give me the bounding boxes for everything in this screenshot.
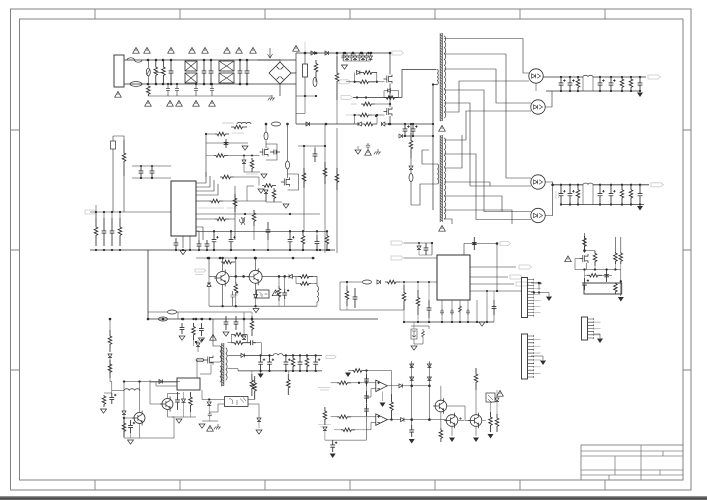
resistor R46	[583, 236, 587, 250]
capacitor C33	[175, 392, 180, 410]
wire	[311, 283, 317, 285]
junction	[286, 123, 288, 125]
wire	[240, 311, 252, 313]
resistor OUT1r2	[620, 77, 624, 91]
warning triangle	[439, 225, 446, 231]
junction u2 gnd bus	[417, 321, 419, 323]
wire U2 in2	[404, 257, 437, 259]
wire	[130, 433, 132, 438]
ground R58	[488, 434, 494, 439]
resistor R38	[250, 374, 254, 396]
junction emi	[195, 83, 197, 85]
wire U2 bypass	[459, 300, 461, 322]
resistor RY1	[147, 86, 151, 96]
capacitor C32	[128, 420, 135, 433]
junction	[315, 354, 317, 356]
capacitor C38	[298, 355, 303, 371]
wire G return bus	[209, 305, 317, 307]
junction	[388, 123, 390, 125]
junction	[432, 123, 434, 125]
diode D25	[401, 418, 404, 422]
wire	[234, 177, 259, 186]
wire 5VSB rail b	[283, 354, 322, 356]
capacitor C22	[174, 238, 179, 250]
wire to rail	[256, 343, 261, 356]
junction	[639, 90, 641, 92]
wire	[355, 429, 367, 431]
capacitor C56	[247, 340, 256, 345]
resistor R25	[192, 323, 196, 340]
ground fb	[242, 146, 248, 150]
wire	[284, 299, 286, 306]
wire	[357, 146, 359, 149]
capacitor C15	[366, 143, 370, 149]
wire	[278, 301, 280, 306]
wire primary bottom lead	[433, 85, 437, 211]
connector CN2	[522, 334, 528, 379]
wire fb drop	[391, 371, 393, 395]
wire U2 o1	[470, 266, 516, 268]
scan edge strip	[0, 496, 707, 500]
junction	[109, 318, 111, 320]
transformer T1 core lower	[440, 135, 442, 222]
resistor R8	[358, 113, 372, 117]
wire Q2 source	[389, 116, 391, 124]
wire opto in2	[209, 404, 224, 412]
wire	[95, 212, 97, 218]
wire	[404, 135, 411, 137]
wire U7B plus	[351, 416, 376, 418]
resistor R13	[214, 154, 228, 158]
wire Q9 base	[124, 417, 134, 419]
diode D9	[399, 134, 402, 138]
wire DR4 up	[545, 185, 552, 216]
junction ac bottom	[246, 83, 249, 86]
junction u2 gnd bus	[403, 321, 405, 323]
bridge rectifier BD1	[269, 62, 291, 84]
junction	[496, 290, 498, 292]
zener D23	[411, 329, 417, 339]
diode D12	[264, 190, 268, 193]
resistor R50	[337, 381, 351, 385]
wire	[410, 158, 412, 165]
pins CN3	[588, 318, 594, 339]
capacitor C23	[197, 240, 202, 250]
resistor R1	[314, 60, 318, 77]
wire	[228, 155, 260, 157]
wire bus y231	[196, 230, 327, 232]
wire	[315, 77, 317, 82]
wire	[602, 274, 612, 276]
capacitor C29	[288, 231, 295, 250]
ground zener	[411, 346, 417, 350]
junction bus250	[319, 249, 321, 251]
warning triangle	[497, 390, 504, 396]
wire q3 gnd bus	[244, 163, 260, 172]
wire	[132, 177, 171, 179]
wire	[206, 155, 214, 157]
ground Q9	[128, 440, 134, 444]
transistor Q6	[247, 268, 262, 285]
junction	[265, 123, 267, 125]
capacitor CY	[175, 84, 179, 96]
junction	[583, 249, 586, 252]
wire	[346, 81, 355, 83]
inductor bead FB2	[272, 122, 281, 126]
junction ac top	[162, 59, 165, 62]
wire Q5 emitter	[222, 285, 224, 307]
wire	[109, 319, 111, 330]
resistor R58	[489, 412, 493, 432]
junction	[412, 135, 414, 137]
wire	[428, 282, 430, 300]
junction	[208, 398, 210, 400]
junction	[304, 52, 307, 55]
ground U4	[176, 419, 182, 423]
warning triangle	[202, 47, 209, 53]
wire sb top bus	[124, 381, 180, 383]
capacitor	[102, 218, 107, 246]
capacitor C49	[353, 288, 358, 308]
wire drop x209	[208, 258, 210, 276]
wire	[418, 243, 420, 246]
capacitor C36	[267, 355, 274, 371]
wire OUT1 V+ rail b	[593, 76, 646, 78]
wire Q13 top	[475, 390, 477, 415]
junction	[538, 282, 541, 285]
diode D10	[345, 56, 349, 59]
wire	[258, 421, 260, 428]
capacitor C27	[231, 291, 239, 306]
wire	[287, 371, 289, 374]
wire bridge to rail	[295, 53, 297, 73]
wire	[410, 170, 412, 174]
junction	[389, 96, 392, 99]
capacitor C10	[341, 53, 345, 61]
ground pin5	[258, 189, 264, 193]
wire	[410, 124, 412, 133]
junction	[630, 184, 632, 186]
resistor R27b	[102, 395, 106, 407]
capacitor C26	[266, 222, 271, 240]
resistor R22	[300, 282, 311, 286]
net label OUT1 out	[648, 75, 661, 79]
wire Q5 collector	[222, 258, 224, 272]
wire	[255, 298, 257, 306]
junction	[605, 268, 607, 270]
wire riser top	[298, 145, 325, 147]
capacitor C59	[582, 278, 589, 290]
pin wires CN3	[594, 322, 601, 335]
capacitor C21	[150, 166, 155, 178]
ground left loop	[101, 409, 107, 413]
junction	[251, 154, 253, 156]
resistor R6	[362, 122, 377, 126]
wire E loop top	[585, 250, 596, 252]
wire	[267, 240, 269, 250]
junction	[292, 370, 294, 372]
wire aux lead 2	[411, 184, 437, 205]
wire U7A out	[387, 385, 399, 387]
wire sec w2	[444, 54, 531, 178]
resistor R56	[439, 428, 443, 442]
warning triangle	[365, 149, 372, 155]
transformer T2 core	[222, 343, 224, 386]
resistor R48b	[619, 252, 623, 264]
ground U2	[479, 322, 485, 326]
wire	[346, 306, 348, 310]
junction	[302, 230, 304, 232]
capacitor CX4	[202, 60, 207, 84]
transistor Q5	[214, 270, 229, 287]
wire fb row	[206, 142, 248, 144]
ground R52	[345, 373, 351, 378]
junction	[123, 380, 125, 382]
junction	[151, 165, 153, 167]
junction ac top	[155, 59, 158, 62]
junction bus250	[253, 249, 255, 251]
resistor R44	[345, 286, 349, 306]
junction	[213, 230, 215, 232]
resistor R4	[360, 71, 377, 75]
capacitor CY	[166, 84, 170, 96]
resistor R60	[323, 407, 327, 425]
wire	[346, 282, 348, 286]
wire riser x325	[324, 124, 326, 253]
junction	[119, 249, 121, 251]
wire U7B inv	[367, 422, 376, 429]
transistor Q8	[160, 397, 173, 412]
junction	[303, 145, 305, 147]
resistor R29	[108, 360, 112, 378]
warning triangle	[439, 125, 446, 131]
wire clamp stub	[362, 53, 364, 61]
wire gate loop1 r	[376, 73, 378, 82]
net label L feed	[222, 122, 234, 124]
warning triangle	[224, 47, 231, 53]
wire	[331, 382, 337, 384]
warning triangle	[168, 47, 175, 53]
wire Q8 base	[150, 380, 162, 404]
wire	[287, 169, 289, 178]
arrow mark	[268, 48, 273, 58]
resistor R54	[341, 428, 355, 432]
resistor R45	[422, 329, 425, 339]
wire	[496, 390, 498, 398]
capacitor C47	[492, 300, 497, 315]
wire bridge ac1	[257, 60, 280, 62]
junction	[538, 291, 540, 293]
wire opto feed	[201, 390, 203, 400]
wire Q6 right	[262, 275, 289, 277]
wire Q9 collector	[139, 382, 141, 413]
title block	[581, 445, 683, 480]
capacitor C34	[208, 412, 212, 418]
inductor L9	[124, 389, 140, 391]
inductor L8	[273, 354, 283, 356]
junction	[324, 145, 326, 147]
wire U1 pin2	[196, 176, 210, 187]
wire sb bottom bus	[124, 437, 174, 439]
junction u2 gnd bus	[459, 321, 461, 323]
wire OUT1 return rail	[546, 90, 641, 92]
wire	[384, 90, 387, 92]
junction bus250	[175, 249, 177, 251]
wire drop x284	[284, 276, 286, 289]
wire Q9 emitter	[139, 424, 141, 439]
wire Q8 collector	[168, 394, 181, 399]
wire sec w1	[444, 39, 529, 74]
wire	[383, 91, 385, 98]
diode D12	[361, 56, 365, 59]
wire	[292, 275, 298, 277]
wire	[248, 399, 255, 401]
wire	[110, 378, 112, 382]
junction	[289, 213, 291, 215]
wire T2 pri top	[213, 319, 220, 346]
diode D5	[306, 122, 309, 126]
resistor R10	[122, 140, 126, 176]
junction	[376, 114, 378, 116]
wire bleeder tie	[156, 71, 164, 73]
junction	[221, 305, 223, 307]
resistor R39	[286, 374, 290, 395]
wire bridge ac2	[279, 84, 281, 96]
rectifier DR2	[531, 100, 545, 114]
wire U7A inv	[367, 389, 376, 397]
capacitor C58	[364, 404, 369, 416]
junction	[389, 123, 392, 126]
junction	[195, 341, 197, 343]
wire U1 pin5	[196, 200, 209, 202]
junction	[353, 114, 355, 116]
junction	[577, 90, 579, 92]
junction standby rail	[182, 318, 185, 321]
wire	[324, 430, 326, 440]
junction	[292, 354, 294, 356]
junction	[147, 318, 150, 321]
capacitor C32b	[109, 393, 116, 404]
inductor bead FB3	[409, 174, 413, 182]
resistor R40	[458, 306, 461, 312]
wire	[398, 91, 400, 98]
capacitor C30	[180, 323, 185, 334]
wire riser x497	[496, 244, 498, 292]
ground CN1	[546, 297, 552, 302]
junction bias rail	[207, 257, 210, 260]
net stub	[304, 42, 306, 52]
junction	[208, 257, 211, 260]
wire gnd cluster	[202, 420, 218, 422]
junction bias rail	[254, 257, 257, 260]
wire dpair b	[428, 361, 430, 420]
inductor bead FB6	[159, 317, 168, 321]
junction	[569, 184, 571, 186]
junction	[265, 123, 268, 126]
wire	[403, 310, 405, 322]
wire sec w6	[444, 81, 529, 112]
wire	[235, 296, 237, 306]
wire Q5-Q6	[229, 275, 249, 277]
junction u2 gnd bus	[486, 321, 488, 323]
junction	[569, 203, 571, 205]
diode D7	[382, 122, 385, 126]
winding T1 primary	[437, 70, 438, 85]
capacitor C28b	[282, 289, 289, 299]
junction	[560, 184, 562, 186]
junction	[599, 203, 601, 205]
capacitor OUT11	[559, 77, 566, 91]
wire	[490, 402, 492, 412]
junction standby rail	[243, 318, 246, 321]
junction	[606, 274, 608, 276]
wire	[336, 53, 338, 56]
junction	[306, 370, 308, 372]
net label sb	[326, 355, 336, 358]
capacitor C17 bulk	[411, 124, 418, 136]
capacitor OUT14	[609, 77, 616, 91]
junction	[376, 81, 378, 83]
net label HV+	[392, 51, 404, 55]
wire vcc drop	[147, 250, 149, 319]
junction	[410, 418, 413, 421]
wire Q11-Q13	[447, 406, 471, 421]
diode D34	[207, 402, 211, 405]
wire	[193, 340, 195, 346]
resistor R2	[335, 56, 339, 100]
rectifier DR4	[531, 208, 545, 222]
junction	[639, 184, 641, 186]
wire	[375, 103, 390, 105]
junction	[315, 52, 318, 55]
capacitor OUT12	[568, 77, 575, 91]
wire 5VSB rail a	[244, 354, 273, 356]
MOSFET Q1	[384, 75, 393, 84]
wire	[417, 315, 419, 322]
wire	[592, 185, 594, 205]
capacitor C12	[357, 53, 361, 61]
junction	[428, 418, 431, 421]
wire zener top	[411, 326, 429, 329]
snubber loop Q3	[266, 144, 277, 160]
wire U4 fb	[150, 381, 177, 383]
wire	[403, 282, 405, 285]
wire 5VSB return	[238, 370, 322, 372]
capacitor C57	[313, 355, 320, 371]
wire left loop	[104, 392, 112, 394]
junction	[610, 184, 612, 186]
warning triangle	[193, 100, 200, 106]
capacitor C44	[440, 309, 444, 315]
ground 5VSB	[258, 374, 264, 379]
junction u2 gnd bus	[451, 321, 453, 323]
junction	[560, 203, 562, 205]
resistor R26	[122, 419, 126, 437]
diode D6	[358, 122, 361, 126]
junction	[418, 242, 420, 244]
wire vert x235	[234, 186, 236, 240]
wire	[410, 181, 412, 205]
junction	[242, 275, 245, 278]
junction	[283, 275, 286, 278]
wire U2 vcc top	[463, 244, 465, 256]
wire gate loop1 l	[354, 73, 356, 82]
ground	[355, 150, 361, 154]
wire	[348, 370, 352, 372]
ground C54	[409, 439, 415, 444]
net label PG	[391, 256, 404, 260]
junction	[235, 275, 238, 278]
